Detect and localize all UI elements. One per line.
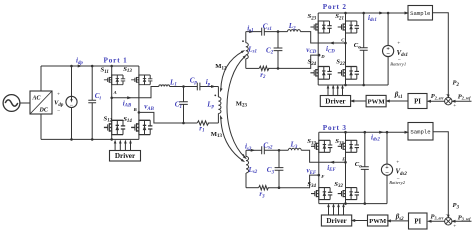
- svg-text:+: +: [57, 91, 60, 97]
- switch S33: [311, 140, 332, 153]
- wire tank3 bottom to node F: [268, 175, 319, 188]
- reference input P3_ref: [453, 220, 472, 222]
- wire L3 to bridge node E: [301, 150, 345, 162]
- driver port 1: [110, 151, 141, 162]
- battery 2: [386, 132, 388, 203]
- wire Cs2 to L3: [264, 149, 288, 151]
- wire tank bottom to node B: [139, 112, 197, 123]
- summing junction port 3: [445, 218, 452, 225]
- svg-text:E: E: [341, 157, 345, 162]
- svg-text:−: −: [445, 212, 448, 218]
- source V_dp: [71, 66, 73, 139]
- resistor r3: [246, 187, 259, 189]
- node D: [318, 54, 321, 57]
- capacitor Cs2: [262, 146, 265, 154]
- node E: [344, 161, 347, 164]
- inductor L3: [288, 148, 301, 150]
- PWM box port 3: [368, 215, 388, 226]
- error wire to PI port 3: [429, 220, 445, 222]
- switch S13: [131, 75, 152, 86]
- switch S32: [338, 187, 359, 200]
- feedback wire sample to summer port 3: [433, 132, 449, 217]
- svg-text:+: +: [453, 224, 456, 230]
- mutual inductance M23 arc: [227, 57, 245, 158]
- H-bridge legs port 1: [112, 66, 139, 139]
- svg-text:−: −: [385, 170, 389, 177]
- PWM box port 2: [366, 95, 386, 106]
- svg-text:−: −: [445, 92, 448, 98]
- AC source: [3, 95, 20, 112]
- capacitor Cp: [197, 83, 200, 91]
- capacitor Co port 2: [363, 13, 365, 85]
- svg-text:AC: AC: [32, 96, 42, 102]
- svg-text:B: B: [133, 107, 137, 112]
- node C: [344, 42, 347, 45]
- current arrow i_s2: [246, 149, 262, 151]
- wire AC source to rectifier: [20, 102, 30, 104]
- wire L2 to bridge node C: [300, 32, 345, 43]
- wire tank2 bottom to node D: [268, 55, 319, 68]
- switch S12: [104, 120, 125, 136]
- error wire to PI port 2: [428, 100, 445, 102]
- AC/DC rectifier: [30, 91, 52, 114]
- svg-text:+: +: [453, 103, 456, 109]
- svg-text:−: −: [386, 51, 390, 58]
- coil Ls1: [245, 32, 247, 43]
- node A: [110, 97, 113, 100]
- reference input P2_ref: [453, 100, 472, 102]
- switch S31: [338, 140, 359, 153]
- current arrow i_AB: [127, 96, 132, 99]
- wire rectifier to DC bus: [40, 66, 42, 139]
- svg-text:Port 1: Port 1: [104, 57, 128, 65]
- battery 1: [387, 13, 389, 85]
- switch S24: [310, 66, 331, 80]
- wire DC bus top rail: [41, 65, 139, 67]
- capacitor Ci: [91, 66, 93, 139]
- current arrow i_CD: [329, 42, 334, 45]
- mutual inductance M13 arc: [221, 118, 243, 161]
- PI box port 3: [409, 213, 428, 229]
- H-bridge legs port 3: [319, 132, 346, 203]
- PI box port 2: [408, 94, 427, 109]
- switch S21: [338, 20, 359, 33]
- switch S22: [338, 66, 359, 80]
- svg-text:A: A: [113, 90, 117, 95]
- svg-text:−: −: [57, 108, 60, 114]
- wire Cp to Lp / current arrow i_p: [200, 86, 219, 88]
- svg-text:PWM: PWM: [369, 218, 387, 225]
- driver box port 2: [320, 96, 350, 107]
- svg-text:Sample: Sample: [410, 129, 430, 136]
- node F: [318, 174, 321, 177]
- feedback wire sample to summer port 2: [433, 13, 449, 97]
- svg-text:Battery2: Battery2: [389, 180, 406, 185]
- driver box port 3: [321, 215, 351, 226]
- DC bus rails port 2: [318, 12, 405, 14]
- mutual inductance M12 arc: [221, 51, 243, 90]
- current arrow i_ds2: [379, 131, 384, 134]
- svg-text:Port 3: Port 3: [323, 124, 347, 132]
- svg-text:Battery1: Battery1: [390, 61, 406, 66]
- svg-text:+: +: [397, 41, 400, 47]
- wire L1 to Cp: [170, 86, 198, 88]
- coil Lp: [217, 87, 219, 98]
- junction right leg port 2: [344, 12, 347, 15]
- switch S34: [311, 187, 332, 200]
- resistor r2: [246, 67, 259, 69]
- capacitor C3: [278, 150, 280, 187]
- resistor r1: [208, 122, 219, 124]
- svg-text:Sample: Sample: [410, 10, 430, 17]
- capacitor Cs1: [262, 28, 265, 36]
- node B: [138, 111, 141, 114]
- current arrow i_dp: [78, 65, 83, 68]
- junction right leg port 3: [344, 131, 347, 134]
- svg-text:PWM: PWM: [368, 98, 386, 105]
- svg-text:+: +: [396, 159, 399, 165]
- svg-text:Port 2: Port 2: [323, 3, 347, 11]
- switch S23: [310, 20, 331, 33]
- svg-text:F: F: [321, 174, 324, 179]
- inductor L1: [159, 85, 170, 87]
- svg-text:PI: PI: [414, 218, 421, 225]
- capacitor C1: [183, 87, 185, 124]
- sample box port 3: [408, 123, 433, 141]
- coil Ls2: [245, 150, 247, 156]
- wire DC bus bottom rail: [41, 138, 139, 140]
- current arrow i_EF: [330, 161, 335, 164]
- sample box port 2: [408, 6, 433, 21]
- svg-text:DC: DC: [39, 108, 49, 114]
- svg-text:Driver: Driver: [115, 152, 136, 160]
- switch S14: [131, 120, 152, 136]
- inductor L2: [288, 30, 301, 32]
- switch S11: [104, 75, 125, 86]
- summing junction port 2: [445, 98, 452, 105]
- wire node A to tank: [112, 87, 159, 98]
- DC bus rails port 3: [319, 131, 405, 133]
- capacitor Co port 3: [364, 132, 366, 203]
- svg-text:Driver: Driver: [325, 97, 346, 105]
- svg-text:Driver: Driver: [326, 217, 347, 225]
- current arrow i_ds1: [379, 12, 384, 15]
- svg-text:D: D: [320, 54, 325, 59]
- H-bridge legs port 2: [318, 13, 345, 85]
- capacitor C2: [277, 32, 279, 69]
- current arrow i_s1: [246, 31, 262, 33]
- wire Cs1 to L2: [264, 31, 287, 33]
- svg-text:PI: PI: [414, 98, 421, 105]
